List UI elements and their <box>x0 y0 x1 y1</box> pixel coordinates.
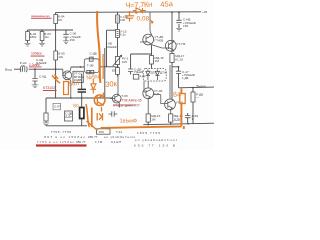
svg-text:Л0Т в ел 150Лас: Л0Т в ел 150Лас <box>44 135 85 139</box>
svg-text:30к: 30к <box>105 79 118 89</box>
svg-text:Ч=7,7Кн: Ч=7,7Кн <box>125 0 152 10</box>
svg-text:100все: 100все <box>31 52 42 56</box>
svg-text:КТ3102: КТ3102 <box>43 86 55 90</box>
svg-text:0,1 м7Г: 0,1 м7Г <box>111 140 122 144</box>
svg-text:ГТ05, ГТ05: ГТ05, ГТ05 <box>51 130 71 134</box>
svg-text:1М: 1М <box>155 59 160 63</box>
svg-text:К50 7Г: К50 7Г <box>76 140 86 144</box>
svg-text:150: 150 <box>183 24 188 28</box>
svg-text:ел у0ла0лайлfront: ел у0ла0лайлfront <box>135 138 177 142</box>
svg-text:К50 7Г: К50 7Г <box>88 135 98 139</box>
svg-text:Б0: Б0 <box>112 69 116 73</box>
svg-text:Д75: Д75 <box>151 71 157 75</box>
svg-text:11к: 11к <box>44 35 49 39</box>
svg-text:С-0?: С-0? <box>54 105 61 109</box>
svg-text:+36: +36 <box>202 10 208 14</box>
svg-text:КТ315Г ДААЛ П7Т: КТ315Г ДААЛ П7Т <box>114 104 141 108</box>
svg-text:100мкФ: 100мкФ <box>106 45 118 49</box>
svg-text:Выход: Выход <box>197 84 206 88</box>
svg-text:8Л: 8Л <box>58 18 62 22</box>
svg-text:заменяемые дет.: заменяемые дет. <box>31 14 50 18</box>
svg-text:1вЬмФ: 1вЬмФ <box>120 119 138 125</box>
svg-text:Д,Дк: Д,Дк <box>65 115 72 119</box>
svg-text:ДМ: ДМ <box>21 64 26 68</box>
svg-text:1,Д5: 1,Д5 <box>182 76 189 80</box>
svg-text:180к: 180к <box>30 35 37 39</box>
svg-text:45а: 45а <box>160 0 174 9</box>
svg-text:1,Дк: 1,Дк <box>140 74 147 78</box>
svg-text:2,2мкФ: 2,2мкФ <box>29 63 41 67</box>
svg-text:Вход: Вход <box>5 68 12 72</box>
svg-text:0,08: 0,08 <box>137 16 150 23</box>
svg-text:Т-0Б: Т-0Б <box>87 64 94 68</box>
svg-text:1,7 Б: 1,7 Б <box>95 140 102 144</box>
svg-text:5,1к: 5,1к <box>120 33 126 37</box>
svg-text:Д7Ж: Д7Ж <box>160 71 167 75</box>
svg-text:100: 100 <box>120 18 125 22</box>
svg-text:ГТ08 АМ№-05: ГТ08 АМ№-05 <box>120 98 142 102</box>
svg-text:1505 7Г05: 1505 7Г05 <box>137 131 160 135</box>
svg-text:Д,Д5: Д,Д5 <box>174 118 181 122</box>
svg-text:ГУ50 в ел 1к5Лас: ГУ50 в ел 1к5Лас <box>37 140 74 144</box>
svg-text:150: 150 <box>99 130 104 134</box>
svg-text:150: 150 <box>70 38 75 42</box>
svg-text:УТ-Н6: УТ-Н6 <box>177 42 186 46</box>
svg-text:ел у0лЬ0н7елis: ел у0лЬ0н7елis <box>104 135 135 139</box>
svg-text:К1,15: К1,15 <box>175 57 183 61</box>
svg-text:ГТ405: ГТ405 <box>155 38 164 42</box>
svg-text:1М: 1М <box>151 118 156 122</box>
svg-text:10к: 10к <box>58 55 63 59</box>
svg-text:105: 105 <box>122 60 127 64</box>
svg-text:Т-11: Т-11 <box>116 130 122 134</box>
svg-text:С-0Д: С-0Д <box>39 75 47 79</box>
svg-text:1: 1 <box>192 117 194 121</box>
